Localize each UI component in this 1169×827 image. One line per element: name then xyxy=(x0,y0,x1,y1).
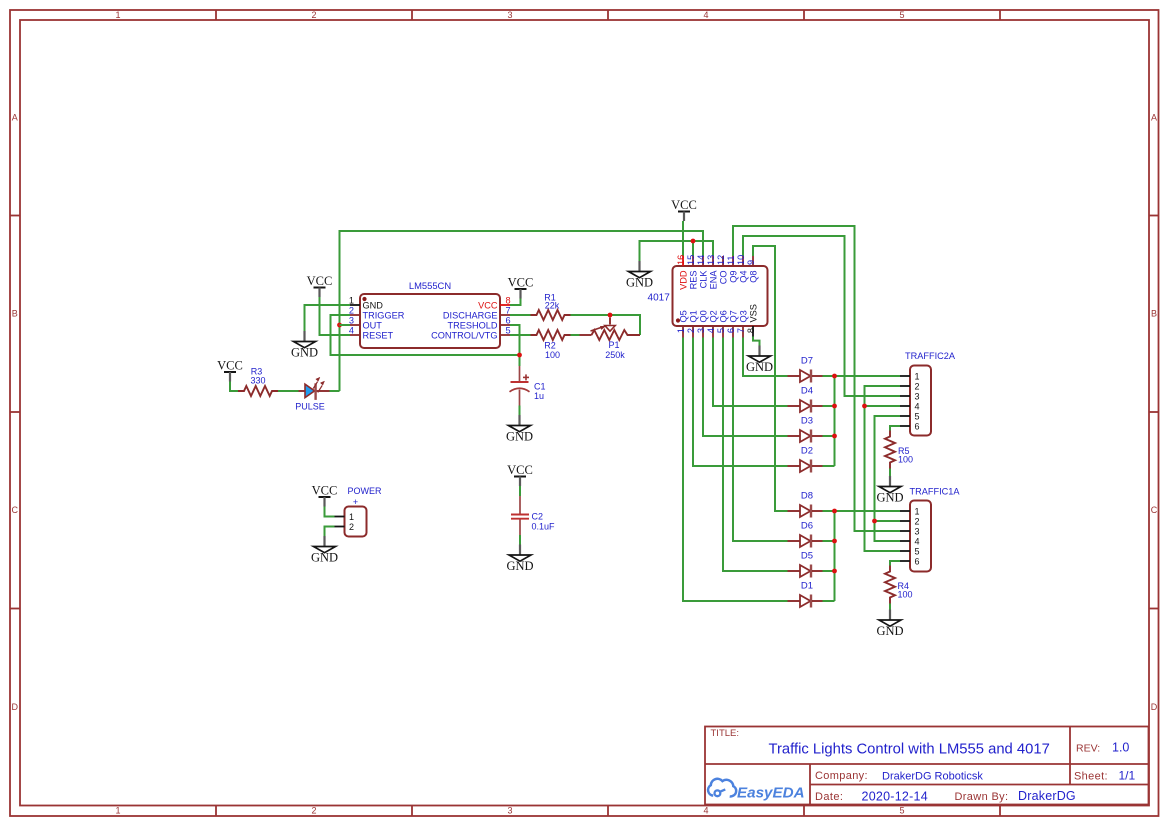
connector POWER xyxy=(335,486,382,537)
diode D6 xyxy=(788,521,823,548)
svg-text:22k: 22k xyxy=(545,301,560,311)
svg-text:C2: C2 xyxy=(532,512,544,522)
svg-text:D1: D1 xyxy=(801,581,813,592)
title text xyxy=(711,728,1050,758)
ground GND (4017 reset net) xyxy=(626,261,653,290)
svg-text:TITLE:: TITLE: xyxy=(711,728,740,739)
wire Q8 pin9 to D8 xyxy=(753,246,788,511)
svg-text:TRAFFIC1A: TRAFFIC1A xyxy=(909,487,960,497)
svg-text:13: 13 xyxy=(706,255,716,265)
wire TRIGGER to THRESHOLD junction xyxy=(331,315,520,355)
svg-text:11: 11 xyxy=(726,255,736,265)
diode D8 xyxy=(788,491,823,518)
svg-text:1: 1 xyxy=(115,806,120,816)
svg-text:GND: GND xyxy=(876,491,903,505)
resistor R1 22k xyxy=(531,293,571,321)
svg-text:Q6: Q6 xyxy=(719,310,729,322)
junction RES pin15 xyxy=(691,239,696,244)
svg-text:14: 14 xyxy=(696,255,706,265)
ground GND (555 pin1) xyxy=(291,331,318,360)
svg-text:GND: GND xyxy=(626,276,653,290)
svg-text:+: + xyxy=(353,497,358,507)
svg-text:VCC: VCC xyxy=(312,484,338,498)
svg-text:Drawn By:: Drawn By: xyxy=(955,791,1009,803)
wire R1 to P1 right terminal xyxy=(571,315,641,335)
svg-text:PULSE: PULSE xyxy=(295,402,325,412)
wire DISCHARGE to R1 xyxy=(510,314,531,316)
IC U1 LM555CN xyxy=(360,280,500,348)
svg-text:VCC: VCC xyxy=(307,274,333,288)
svg-text:Date:: Date: xyxy=(815,791,843,803)
svg-text:100: 100 xyxy=(545,350,560,360)
svg-text:C: C xyxy=(12,505,19,515)
wire 4017 Q0 to diode row xyxy=(703,338,788,437)
svg-text:D8: D8 xyxy=(801,491,813,502)
diode D2 xyxy=(788,446,823,473)
wire 4017 RES/ENA to GND xyxy=(640,241,714,261)
svg-text:1.0: 1.0 xyxy=(1112,741,1129,755)
ground GND (POWER) xyxy=(311,536,338,565)
EasyEDA logo xyxy=(708,779,804,802)
power flag VCC (POWER) xyxy=(312,484,338,507)
rev field xyxy=(1076,741,1129,755)
svg-text:Q2: Q2 xyxy=(709,310,719,322)
svg-text:GND: GND xyxy=(363,301,384,311)
svg-text:GND: GND xyxy=(746,360,773,374)
wire D6 cathode xyxy=(823,540,835,542)
svg-text:B: B xyxy=(1151,309,1157,319)
svg-text:3: 3 xyxy=(914,392,919,402)
svg-text:Q1: Q1 xyxy=(689,310,699,322)
power flag VCC (C2) xyxy=(507,463,533,486)
junction OUT pin3 xyxy=(337,323,342,328)
wire 4017 Q3 to diode row xyxy=(743,338,788,377)
connector TRAFFIC1A xyxy=(900,487,960,572)
svg-text:VCC: VCC xyxy=(217,359,243,373)
svg-text:D5: D5 xyxy=(801,551,813,562)
wire D2 cathode xyxy=(823,465,835,467)
svg-text:EasyEDA: EasyEDA xyxy=(737,785,805,802)
wire VCC to VDD pin16 xyxy=(682,221,684,256)
resistor R3 330 xyxy=(238,367,278,397)
wire TRAFFIC2A pin6 to R5 xyxy=(890,426,900,431)
svg-text:3: 3 xyxy=(696,328,706,333)
wire Q4 pin10 to TRAFFIC2A pin3 xyxy=(743,236,900,396)
svg-text:4: 4 xyxy=(349,326,354,336)
svg-text:6: 6 xyxy=(914,422,919,432)
power flag VCC (555 pin8) xyxy=(508,276,534,299)
wire D5 cathode xyxy=(823,570,835,572)
svg-text:VCC: VCC xyxy=(478,301,498,311)
svg-text:12: 12 xyxy=(716,255,726,265)
svg-text:16: 16 xyxy=(676,255,686,265)
LM555CN right pins xyxy=(431,296,510,341)
svg-text:CONTROL/VTG: CONTROL/VTG xyxy=(431,331,497,341)
wire D1 cathode xyxy=(823,600,835,602)
svg-text:VCC: VCC xyxy=(507,463,533,477)
svg-text:2: 2 xyxy=(311,806,316,816)
wire C1 to GND xyxy=(519,406,521,416)
capacitor C2 0.1uF xyxy=(511,496,555,535)
wire R3 to LED xyxy=(278,390,299,392)
resistor R4 100 xyxy=(885,566,913,604)
junction TRAFFIC1A pin2 xyxy=(872,519,877,524)
svg-text:B: B xyxy=(12,309,18,319)
diode D1 xyxy=(788,581,823,608)
svg-text:5: 5 xyxy=(914,412,919,422)
svg-text:250k: 250k xyxy=(605,350,625,360)
svg-text:D7: D7 xyxy=(801,356,813,367)
svg-text:9: 9 xyxy=(746,260,756,265)
svg-text:D6: D6 xyxy=(801,521,813,532)
svg-text:C: C xyxy=(1151,505,1158,515)
svg-text:1u: 1u xyxy=(534,391,544,401)
wire VCC to RESET pin4 xyxy=(320,297,351,335)
company field xyxy=(815,770,983,782)
svg-text:VCC: VCC xyxy=(508,276,534,290)
junction D3 xyxy=(832,434,837,439)
junction D8 xyxy=(832,509,837,514)
svg-text:1: 1 xyxy=(115,10,120,20)
wire 4017 Q2 to diode row xyxy=(713,338,788,407)
wire VSS to GND xyxy=(753,337,760,347)
svg-text:GND: GND xyxy=(311,551,338,565)
svg-text:Traffic Lights Control with LM: Traffic Lights Control with LM555 and 40… xyxy=(769,742,1050,758)
sheet field xyxy=(1074,769,1136,783)
wire LED cathode to OUT net xyxy=(330,390,340,392)
wire VCC to pin8 xyxy=(510,299,521,306)
svg-text:D: D xyxy=(1151,702,1158,712)
svg-text:1: 1 xyxy=(676,328,686,333)
svg-text:GND: GND xyxy=(876,624,903,638)
power flag VCC (555 RESET) xyxy=(307,274,333,297)
svg-text:POWER: POWER xyxy=(347,486,382,496)
svg-text:3: 3 xyxy=(914,527,919,537)
svg-text:GND: GND xyxy=(506,559,533,573)
svg-text:P1: P1 xyxy=(608,340,619,350)
LED PULSE xyxy=(295,377,329,411)
wire TRAFFIC2A pin5 to TRAFFIC1A pin2/pin4 xyxy=(875,416,901,541)
svg-text:1: 1 xyxy=(914,507,919,517)
svg-text:Q9: Q9 xyxy=(729,271,739,283)
svg-text:5: 5 xyxy=(899,806,904,816)
wire OUT pin3 xyxy=(340,324,351,326)
wire D3 cathode xyxy=(823,435,835,437)
svg-text:Q5: Q5 xyxy=(679,310,689,322)
wire 4017 Q7 to diode row xyxy=(733,338,788,542)
wire VCC to POWER pin1 xyxy=(325,507,335,517)
svg-text:A: A xyxy=(1151,113,1157,123)
connector TRAFFIC2A xyxy=(900,351,956,436)
svg-text:Company:: Company: xyxy=(815,770,868,782)
wire 555 OUT to 4017 CLK pin14 xyxy=(340,231,704,391)
svg-text:TRESHOLD: TRESHOLD xyxy=(447,321,497,331)
svg-text:D: D xyxy=(12,702,19,712)
svg-text:8: 8 xyxy=(746,328,756,333)
wire D7 cathode xyxy=(823,375,835,377)
svg-text:4: 4 xyxy=(914,402,919,412)
junction TRIGGER/THRESHOLD/C1 xyxy=(517,353,522,358)
svg-text:A: A xyxy=(12,113,18,123)
ground GND (C2) xyxy=(506,545,533,574)
svg-text:DrakerDG Roboticsk: DrakerDG Roboticsk xyxy=(882,770,983,782)
junction D5 xyxy=(832,569,837,574)
svg-text:DrakerDG: DrakerDG xyxy=(1018,789,1076,803)
svg-text:4017: 4017 xyxy=(648,292,671,303)
junction D7 xyxy=(832,374,837,379)
date field xyxy=(815,789,1076,804)
svg-text:1: 1 xyxy=(349,296,354,306)
svg-text:CO: CO xyxy=(719,271,729,285)
svg-text:100: 100 xyxy=(898,455,913,465)
svg-text:0.1uF: 0.1uF xyxy=(532,522,556,532)
svg-text:330: 330 xyxy=(250,376,265,386)
wire VCC to R3 xyxy=(230,382,238,392)
svg-text:3: 3 xyxy=(507,10,512,20)
svg-text:CLK: CLK xyxy=(699,270,709,289)
svg-text:GND: GND xyxy=(291,346,318,360)
svg-text:1: 1 xyxy=(349,512,354,522)
LM555CN left pins xyxy=(349,296,405,341)
svg-text:3: 3 xyxy=(349,316,354,326)
diode D4 xyxy=(788,386,823,413)
resistor R2 100 xyxy=(531,330,571,360)
title block xyxy=(705,727,1149,805)
svg-text:6: 6 xyxy=(914,557,919,567)
svg-text:Q8: Q8 xyxy=(749,271,759,283)
junction R1 / P1 wiper xyxy=(608,313,613,318)
svg-text:2: 2 xyxy=(349,306,354,316)
svg-text:R2: R2 xyxy=(544,341,556,351)
svg-text:6: 6 xyxy=(506,316,511,326)
svg-text:5: 5 xyxy=(899,10,904,20)
capacitor C1 1u xyxy=(510,366,546,406)
svg-text:RESET: RESET xyxy=(363,331,394,341)
svg-text:2: 2 xyxy=(914,382,919,392)
svg-text:Q7: Q7 xyxy=(729,310,739,322)
wire R4 to GND xyxy=(889,604,891,610)
svg-text:D3: D3 xyxy=(801,416,813,427)
svg-text:LM555CN: LM555CN xyxy=(409,280,451,291)
svg-text:Q3: Q3 xyxy=(739,310,749,322)
svg-text:RES: RES xyxy=(689,271,699,290)
svg-text:ENA: ENA xyxy=(709,270,719,290)
svg-text:4: 4 xyxy=(914,537,919,547)
wire 555 pin1 to GND xyxy=(305,305,351,331)
svg-text:7: 7 xyxy=(736,328,746,333)
svg-text:4: 4 xyxy=(703,10,708,20)
svg-text:4: 4 xyxy=(706,328,716,333)
wire THRESHOLD to C1 xyxy=(510,325,520,366)
svg-text:D4: D4 xyxy=(801,386,813,397)
svg-text:3: 3 xyxy=(507,806,512,816)
wire VCC to C2 xyxy=(519,486,521,496)
svg-text:4: 4 xyxy=(703,806,708,816)
ground GND (R4) xyxy=(876,610,903,639)
ground GND (R5) xyxy=(876,476,903,505)
svg-text:VDD: VDD xyxy=(679,270,689,290)
wire R5 to GND xyxy=(889,469,891,477)
wire CONTROL to R2 xyxy=(510,334,531,336)
svg-text:2: 2 xyxy=(311,10,316,20)
svg-text:10: 10 xyxy=(736,255,746,265)
svg-text:Q4: Q4 xyxy=(739,271,749,283)
resistor R5 100 xyxy=(885,431,913,469)
svg-text:OUT: OUT xyxy=(363,321,383,331)
wire diode bus to TRAFFIC1A pin1 xyxy=(835,511,901,601)
svg-text:6: 6 xyxy=(726,328,736,333)
svg-text:5: 5 xyxy=(716,328,726,333)
svg-text:5: 5 xyxy=(914,547,919,557)
svg-text:C1: C1 xyxy=(534,382,546,392)
4017 bottom pins 1-8 xyxy=(676,304,759,337)
svg-text:1: 1 xyxy=(914,372,919,382)
svg-text:TRAFFIC2A: TRAFFIC2A xyxy=(905,351,956,361)
svg-text:2020-12-14: 2020-12-14 xyxy=(862,790,928,804)
svg-text:2: 2 xyxy=(349,522,354,532)
svg-text:5: 5 xyxy=(506,326,511,336)
junction TRAFFIC2A pin4 xyxy=(862,404,867,409)
wire 4017 Q1 to diode row xyxy=(693,338,788,467)
svg-text:7: 7 xyxy=(506,306,511,316)
svg-text:DISCHARGE: DISCHARGE xyxy=(443,311,498,321)
wire D4 cathode xyxy=(823,405,835,407)
svg-text:15: 15 xyxy=(686,255,696,265)
svg-text:1/1: 1/1 xyxy=(1119,769,1136,783)
wire POWER pin2 to GND xyxy=(325,527,335,537)
svg-text:Sheet:: Sheet: xyxy=(1074,771,1108,783)
wire Q9 pin11 to TRAFFIC1A pin3 xyxy=(733,226,900,531)
wire C2 to GND xyxy=(519,535,521,545)
wire diode bus to TRAFFIC2A pin1 xyxy=(835,376,901,466)
diode D5 xyxy=(788,551,823,578)
power flag VCC (4017 VDD) xyxy=(671,198,697,221)
svg-text:GND: GND xyxy=(506,430,533,444)
svg-text:VCC: VCC xyxy=(671,198,697,212)
wire D8 cathode xyxy=(823,510,835,512)
wire 4017 Q5 to diode row xyxy=(683,338,788,602)
svg-text:Q0: Q0 xyxy=(699,310,709,322)
svg-text:100: 100 xyxy=(898,590,913,600)
ground GND (C1) xyxy=(506,415,533,444)
wire 4017 Q6 to diode row xyxy=(723,338,788,572)
svg-text:2: 2 xyxy=(686,328,696,333)
diode D3 xyxy=(788,416,823,443)
4017 top pins 16-9 xyxy=(676,255,759,290)
junction D6 xyxy=(832,539,837,544)
wire R2 to P1 xyxy=(571,334,580,336)
potentiometer P1 250k xyxy=(580,318,641,361)
junction D4 xyxy=(832,404,837,409)
svg-text:8: 8 xyxy=(506,296,511,306)
svg-text:VSS: VSS xyxy=(749,304,759,322)
svg-text:REV:: REV: xyxy=(1076,743,1100,755)
svg-text:2: 2 xyxy=(914,517,919,527)
power flag VCC (R3 branch) xyxy=(217,359,243,382)
svg-text:D2: D2 xyxy=(801,446,813,457)
wire TRAFFIC2A pin2/pin4 to TRAFFIC1A pin5 xyxy=(865,386,901,551)
diode D7 xyxy=(788,356,823,383)
ground GND (4017 VSS) xyxy=(746,346,773,375)
IC U2 4017 xyxy=(648,266,768,326)
svg-text:TRIGGER: TRIGGER xyxy=(363,311,405,321)
wire TRAFFIC1A pin6 to R4 xyxy=(890,561,900,566)
